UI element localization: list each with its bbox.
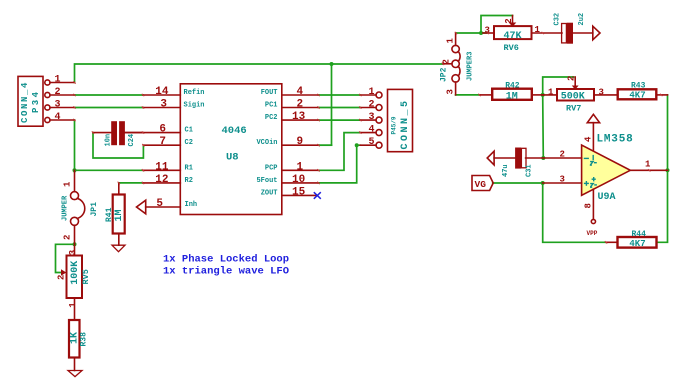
svg-text:ZOUT: ZOUT	[261, 189, 278, 197]
svg-text:C24: C24	[128, 134, 136, 147]
resistor R38 body	[69, 320, 80, 358]
jumper JP2 pin 1	[455, 33, 457, 45]
svg-text:1: 1	[368, 87, 374, 98]
wire CONN_4 pin2 to Refin	[75, 94, 144, 96]
svg-text:1: 1	[63, 181, 73, 187]
node junction CONN_5 pin5	[355, 143, 359, 147]
IC U8 4046 body	[180, 84, 281, 215]
U8 pin 13 PC2 stub	[282, 119, 319, 121]
svg-text:1: 1	[548, 87, 554, 97]
svg-text:500K: 500K	[561, 91, 585, 102]
svg-text:PCP: PCP	[265, 164, 278, 172]
CONN_4 pin 1	[45, 80, 50, 85]
svg-text:6: 6	[159, 124, 166, 136]
svg-text:2: 2	[504, 18, 514, 23]
svg-text:14: 14	[155, 86, 169, 98]
resistor R42 body	[492, 89, 532, 100]
svg-text:JUMPER: JUMPER	[62, 195, 70, 221]
U8 pin 9 VCOin stub	[282, 144, 319, 146]
wire JP2 pin1 to RV6 node	[456, 32, 488, 34]
wire RV6 wiper loop	[481, 16, 513, 34]
op-amp pin 3 stub	[543, 182, 582, 184]
svg-text:2: 2	[55, 87, 61, 98]
svg-text:R1: R1	[185, 164, 193, 172]
svg-text:1: 1	[645, 160, 651, 170]
svg-text:1x triangle wave LFO: 1x triangle wave LFO	[163, 266, 289, 278]
node junction RV6	[479, 31, 483, 35]
resistor R43 body	[618, 89, 657, 99]
R41 top lead	[118, 183, 120, 195]
capacitor C31 negative plate	[521, 148, 526, 168]
svg-text:5Fout: 5Fout	[256, 177, 277, 185]
svg-text:Sigin: Sigin	[184, 102, 205, 110]
svg-text:C32: C32	[554, 13, 562, 26]
U8 pin name labels	[184, 89, 278, 209]
wire pin3 node down to R44	[543, 183, 606, 242]
CONN_5 pin 5	[376, 142, 382, 148]
svg-text:U8: U8	[226, 152, 239, 164]
R41 bottom lead	[118, 234, 120, 246]
node junction top rail to VCOin	[330, 62, 334, 66]
svg-text:R44: R44	[632, 230, 647, 239]
svg-text:47u: 47u	[502, 164, 510, 177]
wire to R1	[75, 169, 144, 171]
svg-text:2: 2	[560, 150, 565, 160]
svg-text:C31: C31	[526, 164, 534, 177]
U8 pin 2 PC1 stub	[282, 107, 319, 109]
svg-text:1M: 1M	[506, 92, 518, 103]
svg-text:2: 2	[368, 100, 374, 111]
no-connect X at ZOUT pin 15	[314, 192, 321, 199]
wire RV5 wiper loop	[56, 244, 75, 272]
svg-text:P45/9: P45/9	[391, 116, 398, 134]
wire FOUT to CONN_5 pin1	[319, 94, 361, 96]
op-amp power pin 8	[592, 189, 594, 219]
wire vertical to VCOin	[318, 64, 332, 145]
CONN_5 pin 1	[376, 92, 382, 98]
svg-text:LM358: LM358	[597, 133, 634, 145]
op-amp U9A power pin 4	[592, 123, 594, 152]
RV7 pin 1 lead	[543, 94, 557, 96]
wire left rail down to JP1	[74, 170, 76, 172]
supply arrow above op-amp pin 4	[587, 114, 599, 122]
svg-text:4: 4	[297, 86, 304, 98]
ground arrow below R41	[112, 245, 125, 252]
svg-text:P34: P34	[31, 90, 41, 113]
svg-text:11: 11	[155, 161, 169, 173]
svg-text:4K7: 4K7	[629, 239, 645, 249]
node junction R42 RV7	[541, 93, 545, 97]
svg-text:2: 2	[63, 235, 73, 240]
svg-text:CONN_5: CONN_5	[400, 98, 411, 149]
CONN_5 pin 4	[376, 130, 382, 136]
RV6 pin 1 lead to C32	[532, 32, 563, 34]
svg-text:VPP: VPP	[587, 230, 598, 237]
svg-text:3: 3	[560, 174, 565, 184]
wire JP2 pin3 to R42	[456, 94, 480, 96]
svg-text:C1: C1	[185, 127, 193, 135]
U8 left pin numbers	[155, 86, 169, 210]
node junction op-amp pin2 C31	[541, 156, 545, 160]
capacitor C31 positive plate	[516, 148, 520, 168]
op-amp input polarity marks	[584, 155, 597, 187]
RV5 pin 1 lead	[74, 298, 76, 320]
C32 right lead	[572, 32, 593, 34]
svg-text:100K: 100K	[70, 261, 81, 285]
svg-text:C2: C2	[185, 139, 193, 147]
wire C24 to C2	[93, 133, 143, 158]
svg-text:1: 1	[446, 38, 456, 44]
RV7 wiper pin 2	[574, 77, 576, 86]
svg-text:3: 3	[368, 112, 374, 123]
CONN_5 pin 3	[376, 117, 382, 123]
U8 pin 6 C1 stub	[124, 132, 180, 134]
JP1 arc	[77, 198, 84, 218]
CONN_4 pin numbers	[55, 75, 61, 124]
wire RV7 wiper loop	[543, 77, 574, 95]
U8 pin 1 PCP stub	[282, 169, 319, 171]
svg-text:10n: 10n	[105, 134, 113, 147]
connector CONN_4 P34 body	[18, 76, 43, 126]
connector CONN_5 body	[388, 89, 413, 151]
ground arrow below R38	[68, 371, 82, 377]
jumper JP2 pin 2	[452, 60, 459, 67]
svg-text:1: 1	[535, 25, 541, 35]
op-amp output pin 1	[630, 169, 667, 171]
svg-text:RV5: RV5	[81, 269, 91, 284]
U8 right pin numbers	[292, 86, 306, 198]
jumper JP1 pin 1	[74, 170, 76, 191]
potentiometer RV5 body	[67, 256, 83, 299]
R38 bottom lead	[74, 359, 76, 371]
svg-text:10: 10	[292, 174, 305, 186]
svg-text:Refin: Refin	[184, 89, 205, 97]
resistor R41 body	[113, 195, 125, 234]
svg-text:12: 12	[155, 174, 168, 186]
potentiometer RV6 body	[494, 26, 532, 39]
svg-text:1x Phase Locked Loop: 1x Phase Locked Loop	[163, 254, 289, 266]
R44 left lead	[606, 241, 618, 243]
wire PC2 to CONN_5 pin3	[319, 119, 361, 121]
U8 pin 5 Inh stub	[146, 206, 181, 208]
potentiometer RV7 body	[557, 89, 594, 101]
svg-text:U9A: U9A	[598, 192, 616, 203]
wire integrator node down to op-amp pin2	[542, 95, 545, 158]
svg-text:JP1: JP1	[90, 202, 99, 217]
svg-text:3: 3	[160, 99, 167, 111]
CONN_4 pin 4	[45, 117, 50, 122]
U8 pin 11 R1 stub	[143, 169, 180, 171]
CONN_4 pin 3	[45, 105, 50, 110]
svg-text:15: 15	[292, 186, 306, 198]
svg-text:4: 4	[55, 112, 61, 123]
CONN_4 pin 2	[45, 92, 50, 97]
CONN_5 pin 2	[376, 105, 382, 111]
svg-text:2: 2	[567, 76, 577, 81]
svg-text:5: 5	[368, 137, 374, 148]
svg-text:CONN_4: CONN_4	[20, 81, 30, 123]
node junction left rail R1	[73, 168, 77, 172]
C31 right lead	[526, 157, 544, 159]
svg-text:R38: R38	[79, 332, 88, 347]
U8 pin 15 ZOUT stub	[282, 194, 317, 196]
svg-text:1M: 1M	[114, 209, 125, 221]
CONN_5 pin numbers	[368, 87, 374, 148]
U8 pin 3 Sigin stub	[143, 107, 180, 109]
R42 left lead	[480, 94, 493, 96]
U8 pin 12 R2 stub	[143, 182, 180, 184]
wire net top rail from CONN_4 pin1 to JP2 pin2	[75, 64, 444, 83]
JP2 arcs	[458, 52, 460, 62]
C31 left lead	[494, 157, 516, 159]
wire CONN_4 pin3 to Sigin	[75, 107, 144, 109]
wire PC1 to CONN_5 pin2	[319, 107, 361, 109]
capacitor C24 left lead	[93, 132, 112, 134]
U8 pin 14 Refin stub	[143, 94, 180, 96]
svg-text:PC2: PC2	[265, 114, 278, 122]
RV5 pin 3 lead	[74, 244, 76, 255]
supply arrow left of C31	[487, 151, 494, 165]
supply arrow at Inh	[137, 200, 146, 214]
U8 pin 4 FOUT stub	[282, 94, 319, 96]
svg-text:VCOin: VCOin	[256, 139, 277, 147]
svg-text:FOUT: FOUT	[261, 89, 278, 97]
svg-text:4: 4	[584, 136, 594, 142]
svg-text:4: 4	[368, 125, 374, 136]
svg-text:R42: R42	[505, 82, 520, 91]
node junction op-amp output	[666, 168, 670, 172]
svg-text:7: 7	[159, 136, 166, 148]
svg-text:2: 2	[297, 99, 304, 111]
RV6 pin 3 lead	[483, 32, 494, 34]
R42 right lead	[532, 94, 543, 96]
op-amp pin 2 stub	[543, 157, 581, 159]
C24 right lead	[124, 132, 143, 134]
svg-text:1: 1	[55, 75, 61, 86]
jumper JP2 pin 3	[452, 75, 459, 82]
svg-text:2: 2	[442, 59, 452, 64]
svg-text:9: 9	[297, 136, 304, 148]
svg-text:1: 1	[68, 302, 78, 308]
svg-text:1: 1	[297, 161, 304, 173]
svg-text:4046: 4046	[222, 125, 247, 137]
svg-text:RV7: RV7	[566, 104, 581, 114]
svg-text:3: 3	[485, 26, 490, 36]
wire R2 to R41	[119, 182, 143, 184]
svg-text:2: 2	[57, 275, 67, 280]
svg-text:3: 3	[599, 87, 604, 97]
svg-text:R41: R41	[105, 207, 114, 222]
wire right rail R43 to R44	[657, 95, 668, 242]
VPP open pin circle	[591, 219, 595, 223]
wire CONN_5 pin4 to PCP	[319, 133, 361, 171]
RV7 pin 3 lead	[594, 94, 617, 96]
wire CONN_4 pin4 down left rail	[74, 120, 76, 170]
svg-text:3: 3	[446, 89, 456, 94]
svg-text:2u2: 2u2	[578, 13, 586, 26]
node junction op-amp pin3	[541, 181, 545, 185]
svg-text:3: 3	[68, 250, 78, 255]
svg-text:RV6: RV6	[504, 43, 519, 53]
capacitor C24 plates	[112, 122, 116, 144]
wire JP1 pin2 to RV5 node	[73, 242, 77, 246]
svg-text:JUMPER3: JUMPER3	[467, 52, 475, 81]
supply arrow right of C32	[593, 26, 600, 40]
wire CONN_5 pin5 to 5Fout	[319, 145, 361, 183]
svg-text:R2: R2	[185, 177, 193, 185]
svg-text:JP2: JP2	[440, 67, 449, 82]
svg-text:R43: R43	[631, 81, 646, 90]
capacitor C32 positive plate	[568, 24, 573, 43]
resistor R44 body	[618, 237, 657, 248]
pin connection tick marks	[73, 32, 662, 244]
jumper JP1 pin 2	[71, 217, 79, 225]
svg-text:4K7: 4K7	[629, 90, 645, 100]
op-amp U9A triangle	[582, 145, 631, 195]
svg-text:1K: 1K	[70, 332, 81, 344]
svg-text:3: 3	[55, 100, 61, 111]
svg-text:8: 8	[584, 203, 594, 208]
RV5 wiper pin 2 arrow	[61, 269, 66, 276]
U8 pin 10 5Fout stub	[282, 182, 319, 184]
svg-text:5: 5	[156, 198, 163, 210]
svg-text:VG: VG	[475, 179, 487, 190]
wire VG to op-amp pin3	[493, 182, 543, 184]
wire VCOin stub green	[319, 144, 332, 146]
svg-text:PC1: PC1	[265, 102, 278, 110]
svg-text:Inh: Inh	[185, 201, 198, 209]
R43 right lead	[657, 94, 668, 96]
supply flag VG	[472, 176, 493, 191]
capacitor C32 negative plate	[562, 24, 567, 43]
U8 pin 7 C2 stub	[143, 144, 180, 146]
RV6 wiper pin 2	[512, 16, 514, 24]
svg-text:47K: 47K	[504, 31, 522, 42]
svg-text:13: 13	[292, 111, 306, 123]
